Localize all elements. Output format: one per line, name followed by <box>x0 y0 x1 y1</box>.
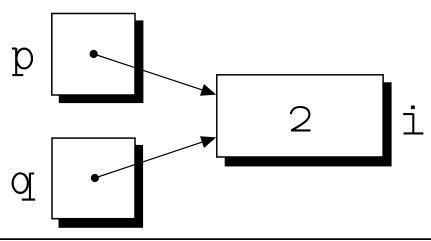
arrowhead of q arrow <box>200 136 216 148</box>
bottom rule <box>0 238 431 240</box>
label i <box>403 106 423 134</box>
dot in box p <box>90 50 98 58</box>
shadow of box i <box>225 82 392 166</box>
wire: arrow shaft from q dot to box i <box>95 141 205 178</box>
value 2 in box i <box>291 107 311 130</box>
shadow of box p <box>59 20 144 103</box>
box i (int variable i) <box>217 75 383 157</box>
label q <box>13 173 36 200</box>
box p (pointer variable p) <box>52 14 135 96</box>
shadow of box q <box>59 145 144 228</box>
box q (pointer variable q) <box>52 138 135 219</box>
label p <box>12 48 32 75</box>
dot in box q <box>91 174 99 182</box>
wire: arrow shaft from p dot to box i <box>94 54 205 91</box>
arrowhead of p arrow <box>200 84 216 96</box>
